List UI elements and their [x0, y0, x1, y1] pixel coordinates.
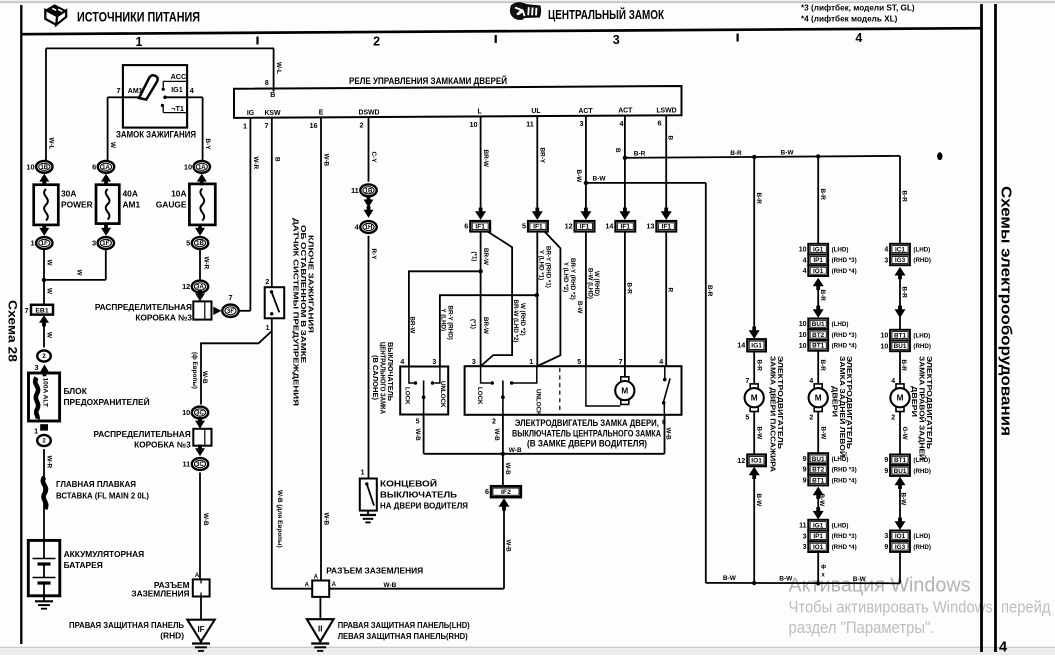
svg-text:1: 1 — [529, 359, 533, 366]
svg-text:10: 10 — [182, 408, 190, 417]
wire B-W branch horizontal — [576, 176, 706, 314]
svg-text:5: 5 — [577, 359, 581, 366]
svg-text:IC1: IC1 — [895, 246, 905, 253]
page bottom gray strip — [0, 647, 1055, 655]
svg-text:1: 1 — [136, 35, 143, 49]
svg-text:12: 12 — [737, 456, 745, 465]
svg-text:BR-W: BR-W — [482, 150, 489, 168]
svg-text:9: 9 — [803, 456, 807, 463]
wire W-B from relay E pin to ground — [321, 117, 329, 580]
svg-text:10: 10 — [881, 343, 889, 350]
svg-text:1A: 1A — [102, 165, 110, 171]
arrow into junction box — [195, 290, 205, 302]
svg-text:BT1: BT1 — [812, 343, 825, 350]
wire W from ignition pin7 — [108, 97, 123, 161]
svg-text:4: 4 — [999, 640, 1007, 656]
svg-text:W-L: W-L — [275, 62, 282, 74]
connector 10 3C — [182, 407, 208, 419]
svg-text:A: A — [332, 582, 337, 588]
fuse box arrow and pin 3 — [34, 363, 49, 376]
svg-text:IG1: IG1 — [171, 85, 183, 94]
svg-text:(RHD *4): (RHD *4) — [832, 343, 857, 350]
svg-text:B-W: B-W — [576, 301, 583, 314]
svg-text:14: 14 — [605, 222, 613, 231]
svg-text:11: 11 — [526, 120, 534, 129]
svg-text:1F: 1F — [102, 241, 109, 247]
svg-text:(RHD *4): (RHD *4) — [832, 477, 857, 484]
courtesy switch ground — [360, 511, 376, 523]
svg-text:POWER: POWER — [61, 200, 93, 210]
svg-text:РАЗЪЕМ ЗАЗЕМЛЕНИЯ: РАЗЪЕМ ЗАЗЕМЛЕНИЯ — [326, 565, 423, 575]
svg-text:РАСПРЕДЕЛИТЕЛЬНАЯ: РАСПРЕДЕЛИТЕЛЬНАЯ — [95, 302, 192, 312]
svg-text:EB1: EB1 — [35, 307, 48, 314]
svg-text:IF2: IF2 — [501, 489, 511, 496]
connector 2 oval upper — [37, 350, 51, 361]
svg-text:(LHD): (LHD) — [832, 246, 849, 253]
svg-text:(RHD *3): (RHD *3) — [832, 533, 857, 540]
svg-text:Y (LHD *2): Y (LHD *2) — [562, 262, 569, 292]
arrow and B-W link rear-left — [813, 487, 825, 520]
central lock switch box (В САЛОНЕ) — [400, 359, 448, 414]
wire BR-W from IF1 to driver box pin 3 — [470, 232, 490, 367]
svg-text:4: 4 — [659, 359, 663, 366]
svg-text:IF1: IF1 — [662, 224, 672, 231]
wire W-L drop to connector 1B — [46, 48, 54, 161]
wire W-B left branch into ground connector — [272, 588, 312, 590]
distribution box РАСПРЕДЕЛИТЕЛЬНАЯ КОРОБКА №3 (lower) — [94, 421, 212, 450]
svg-text:B-W: B-W — [779, 576, 793, 583]
arrow below stack and B-R link rear-right — [895, 267, 908, 330]
svg-text:LOCK: LOCK — [404, 387, 411, 405]
wire W-B from driver box pin 2 — [492, 415, 503, 454]
svg-text:5: 5 — [186, 239, 190, 248]
svg-text:W-B: W-B — [384, 582, 397, 589]
wire BR-W from relay L pin — [481, 116, 490, 210]
frame header rule with column ticks — [21, 28, 982, 44]
svg-text:W: W — [109, 142, 116, 149]
wire branch to salon switch pin 4 — [409, 271, 481, 366]
battery header icon — [45, 4, 66, 25]
svg-text:1: 1 — [34, 427, 38, 436]
driver door lock motor and switch box — [465, 359, 682, 416]
lock header icon — [510, 3, 540, 20]
svg-text:LSWD: LSWD — [656, 107, 676, 114]
bottom bus B-W — [706, 575, 900, 585]
svg-text:3: 3 — [92, 239, 96, 248]
wire R to driver box pin 4 — [666, 232, 673, 367]
arrow below IO1 — [749, 467, 760, 479]
svg-text:W-B: W-B — [201, 371, 208, 384]
svg-text:W-B: W-B — [504, 463, 511, 476]
svg-text:AM1: AM1 — [128, 88, 143, 95]
bus B-R horizontal to right section — [625, 149, 900, 159]
door lock control relay РЕЛЕ УПРАВЛЕНИЯ ЗАМКАМИ ДВЕРЕЙ — [234, 75, 682, 118]
svg-text:IO1: IO1 — [751, 458, 762, 465]
svg-text:IF1: IF1 — [580, 224, 590, 231]
svg-text:R-Y: R-Y — [370, 249, 377, 261]
svg-text:W-B: W-B — [493, 429, 500, 442]
svg-text:W-R: W-R — [45, 456, 52, 469]
wire to bottom bus rear-right — [899, 552, 901, 583]
svg-text:BT1: BT1 — [894, 457, 907, 464]
svg-text:КОРОБКА №3: КОРОБКА №3 — [134, 439, 191, 449]
svg-text:BR-W: BR-W — [482, 248, 489, 265]
svg-text:10A: 10A — [171, 189, 186, 199]
svg-text:Активация Windows: Активация Windows — [789, 575, 971, 597]
fuse 10A GAUGE — [156, 184, 216, 225]
wire B from relay LSWD pin — [666, 115, 673, 210]
svg-text:B-W: B-W — [853, 576, 867, 583]
svg-text:2: 2 — [265, 279, 269, 286]
relay pin labels — [247, 107, 677, 117]
svg-text:W-R: W-R — [203, 257, 210, 270]
svg-text:9: 9 — [884, 468, 888, 475]
connector 12 3A — [182, 281, 208, 293]
header title ИСТОЧНИКИ ПИТАНИЯ — [77, 10, 200, 25]
driver door courtesy switch КОНЦЕВОЙ ВЫКЛЮЧАТЕЛЬ — [360, 470, 468, 511]
passenger door motor — [745, 384, 764, 412]
wire B-W below rear left motor — [809, 411, 826, 453]
svg-text:10: 10 — [799, 332, 807, 339]
svg-text:ДВЕРИ: ДВЕРИ — [831, 386, 840, 417]
svg-text:(RHD): (RHD) — [913, 468, 931, 475]
svg-text:(RHD *3): (RHD *3) — [832, 467, 857, 474]
wire B-R to driver box pin 7 motor — [625, 232, 632, 379]
svg-text:(RHD): (RHD) — [913, 343, 931, 350]
wire C-Y from relay DSWD — [369, 117, 378, 182]
svg-text:B: B — [666, 136, 673, 141]
main fusible link ГЛАВНАЯ ПЛАВКАЯ ВСТАВКА — [43, 477, 149, 509]
svg-text:3: 3 — [884, 257, 888, 264]
wire B-W from relay ACT pin 3 — [575, 116, 588, 211]
wire W-B from salon pin 5 — [414, 415, 424, 454]
svg-text:9: 9 — [884, 544, 888, 551]
svg-text:¬T1: ¬T1 — [171, 104, 184, 113]
svg-text:(ф Европы): (ф Европы) — [191, 352, 198, 389]
svg-text:IG1: IG1 — [751, 343, 762, 350]
svg-text:UNLOCK: UNLOCK — [535, 389, 542, 416]
svg-text:1B: 1B — [40, 165, 48, 171]
svg-text:3: 3 — [34, 363, 38, 372]
svg-text:W-B (для Европы): W-B (для Европы) — [276, 490, 283, 548]
svg-text:3: 3 — [579, 119, 583, 128]
svg-text:10: 10 — [799, 247, 807, 254]
svg-text:(RHD *3): (RHD *3) — [832, 332, 857, 339]
svg-text:B-R: B-R — [901, 287, 908, 299]
wire B-R to rear right motor — [891, 351, 907, 385]
svg-text:ЗАМКА ДВЕРИ ПАССАЖИРА: ЗАМКА ДВЕРИ ПАССАЖИРА — [769, 356, 778, 473]
svg-text:12: 12 — [182, 282, 190, 291]
wire B-R from relay ACT pin 4 — [614, 116, 627, 211]
connector 10 1A — [184, 161, 210, 173]
svg-text:(RHD): (RHD) — [913, 257, 931, 264]
svg-text:BR-Y (RHD *2): BR-Y (RHD *2) — [569, 258, 576, 300]
svg-text:B-Y: B-Y — [204, 139, 211, 151]
frame right border double line — [982, 4, 996, 652]
relay pin numbers — [243, 119, 662, 131]
svg-text:IG: IG — [247, 110, 254, 117]
arrows into fuses — [39, 174, 207, 186]
svg-text:10: 10 — [469, 120, 477, 129]
svg-text:W-B: W-B — [414, 429, 421, 442]
svg-text:4: 4 — [884, 247, 888, 254]
svg-text:(LHD): (LHD) — [832, 321, 849, 328]
svg-text:ИСТОЧНИКИ ПИТАНИЯ: ИСТОЧНИКИ ПИТАНИЯ — [77, 10, 200, 25]
svg-text:B-W: B-W — [756, 427, 763, 441]
svg-text:BT1: BT1 — [812, 477, 825, 484]
wire W-B from IF2 to ground bus — [504, 507, 511, 589]
svg-text:8: 8 — [265, 80, 269, 87]
svg-text:(*1): (*1) — [470, 319, 477, 329]
arrow into 13 IF1 — [661, 208, 672, 220]
svg-text:IO1: IO1 — [813, 544, 824, 551]
svg-text:3C: 3C — [196, 411, 204, 417]
arrow into 5 IF1 — [532, 208, 543, 220]
svg-text:6: 6 — [464, 222, 468, 231]
svg-text:100A ALT: 100A ALT — [42, 378, 49, 407]
svg-text:16: 16 — [309, 121, 317, 130]
svg-text:B-R: B-R — [900, 360, 907, 372]
connector stack IC1 IG3 (upper rear-right) — [884, 244, 931, 265]
arrow into 14 IG1 — [749, 327, 760, 339]
connector 6 1A — [92, 161, 114, 173]
arrow into 14 IF1 — [619, 208, 630, 220]
windows activation watermark (behind diagram) — [789, 575, 1051, 637]
wire W-B down to ground connector — [195, 446, 209, 580]
connector 6 IF2 — [485, 486, 521, 497]
wire B-R drop to rear left door — [818, 157, 826, 244]
svg-text:3: 3 — [613, 33, 620, 47]
svg-text:30A: 30A — [61, 189, 76, 199]
svg-text:ВСТАВКА (FL MAIN 2 0L): ВСТАВКА (FL MAIN 2 0L) — [56, 490, 149, 500]
connector 11 1B oval — [351, 184, 377, 196]
arrow below EB1 and wire W — [39, 315, 53, 347]
arrow into 6 IF1 — [475, 208, 486, 220]
svg-text:4: 4 — [400, 359, 404, 366]
salon switch rotated label ВЫКЛЮЧАТЕЛЬ ЦЕНТРАЛЬНОГО ЗАМКА (В САЛОНЕ) — [371, 342, 395, 415]
svg-text:B: B — [274, 157, 281, 162]
svg-text:ДВЕРИ: ДВЕРИ — [910, 386, 919, 417]
wire to bottom bus with marks — [816, 552, 826, 586]
svg-text:АККУМУЛЯТОРНАЯ: АККУМУЛЯТОРНАЯ — [64, 549, 145, 559]
arrow below stack and B-R link — [813, 278, 826, 318]
svg-text:B-W: B-W — [593, 176, 607, 183]
svg-text:3: 3 — [803, 544, 807, 551]
svg-text:W-B: W-B — [509, 447, 522, 454]
wire from sensor to distribution box 2 — [191, 318, 283, 588]
svg-text:BR-Y (RHD *1): BR-Y (RHD *1) — [544, 246, 551, 288]
svg-text:DSWD: DSWD — [358, 109, 379, 116]
connector stack IO1 IG3 (lower rear-right) — [884, 531, 931, 552]
header note *3 *4 liftback models — [801, 3, 915, 24]
svg-text:7: 7 — [228, 293, 232, 302]
connector stack BU1 BT2 BT1 (lower rear-left) — [803, 453, 857, 485]
svg-text:7: 7 — [116, 86, 120, 95]
svg-text:BU1: BU1 — [894, 343, 907, 350]
svg-text:раздел "Параметры".: раздел "Параметры". — [789, 619, 935, 637]
svg-text:13: 13 — [646, 222, 654, 231]
rear right door motor — [890, 384, 909, 412]
svg-text:10: 10 — [26, 162, 34, 171]
svg-text:Схемы электрооборудования: Схемы электрооборудования — [998, 186, 1014, 436]
wire B-R drop to rear right door — [900, 156, 908, 244]
connector stack BT1 BU1 (upper rear-right) — [881, 330, 931, 351]
column number 1 — [136, 35, 143, 49]
svg-text:2: 2 — [359, 121, 363, 130]
svg-text:(RHD *3): (RHD *3) — [832, 257, 857, 264]
svg-text:1F: 1F — [41, 241, 48, 247]
svg-text:A: A — [195, 573, 200, 579]
svg-text:1B: 1B — [196, 241, 204, 247]
svg-text:10: 10 — [799, 321, 807, 328]
svg-text:C-Y: C-Y — [370, 152, 377, 164]
wire salon pin 3 to UL wire — [440, 295, 537, 366]
svg-text:B-R: B-R — [819, 360, 826, 372]
connector 12 IO1 — [737, 455, 766, 467]
svg-text:B-W: B-W — [818, 494, 825, 508]
wire B-Y from ignition pin4 — [187, 97, 211, 161]
wire B-R drop to passenger door motor — [754, 157, 762, 330]
column number 2 — [373, 34, 380, 48]
svg-text:W-R: W-R — [252, 157, 259, 170]
svg-text:II: II — [318, 625, 322, 634]
svg-text:AM1: AM1 — [123, 200, 141, 210]
svg-text:(RHD *4): (RHD *4) — [832, 268, 857, 275]
svg-text:M: M — [621, 387, 628, 396]
connector stack BU1 BT2 BT1 (upper rear-left) — [799, 319, 857, 351]
svg-text:5: 5 — [416, 418, 420, 425]
connector 2 oval lower — [37, 435, 51, 446]
svg-text:IG3: IG3 — [895, 257, 906, 264]
wire to IF2 — [503, 454, 511, 486]
svg-text:IP1: IP1 — [813, 533, 823, 540]
distribution box РАСПРЕДЕЛИТЕЛЬНАЯ КОРОБКА №3 (upper) — [95, 301, 212, 322]
svg-text:W-B: W-B — [322, 513, 329, 526]
wire W-R to main fuse — [44, 449, 52, 540]
wire B from relay KSW — [272, 118, 281, 288]
svg-text:B: B — [614, 148, 621, 153]
connector 13 IF1 — [646, 221, 676, 232]
svg-text:*4 (лифтбек модель XL): *4 (лифтбек модель XL) — [801, 14, 898, 24]
svg-text:W (RHD *2): W (RHD *2) — [519, 303, 526, 336]
svg-text:B-W: B-W — [819, 427, 826, 441]
svg-text:IO1: IO1 — [895, 533, 906, 540]
svg-text:2: 2 — [373, 34, 380, 48]
svg-text:ПРАВАЯ ЗАЩИТНАЯ ПАНЕЛЬ: ПРАВАЯ ЗАЩИТНАЯ ПАНЕЛЬ — [69, 620, 184, 630]
wire B-W below motor — [745, 411, 762, 454]
svg-text:ПРАВАЯ ЗАЩИТНАЯ ПАНЕЛЬ(LHD): ПРАВАЯ ЗАЩИТНАЯ ПАНЕЛЬ(LHD) — [338, 620, 470, 630]
svg-text:1B: 1B — [365, 189, 373, 195]
connector 3 1F — [92, 237, 114, 249]
page top gray strip — [0, 0, 1055, 3]
svg-text:2: 2 — [891, 414, 895, 421]
svg-text:W: W — [46, 288, 53, 295]
ground bus W-B under lock boxes — [424, 447, 665, 456]
svg-text:1H: 1H — [365, 225, 373, 231]
svg-text:E: E — [319, 110, 324, 117]
svg-text:A: A — [305, 583, 310, 589]
column number 3 — [613, 33, 620, 47]
svg-text:ACT: ACT — [618, 108, 633, 115]
wire B-W to bottom bus — [754, 475, 762, 583]
rear-left motor rotated label ЭЛЕКТРОДВИГАТЕЛЬ ЗАМКА ЗАДНЕЙ ЛЕВОЙ ДВЕРИ — [831, 356, 855, 457]
wire B-R to motor — [745, 351, 762, 385]
svg-text:(LHD): (LHD) — [913, 533, 930, 540]
svg-text:4: 4 — [803, 257, 807, 264]
svg-text:3: 3 — [432, 359, 436, 366]
svg-text:BU1: BU1 — [812, 321, 825, 328]
svg-text:6: 6 — [485, 487, 489, 496]
svg-text:6: 6 — [92, 162, 96, 171]
svg-text:ЭЛЕКТРОДВИГАТЕЛЬ ЗАМКА ДВЕРИ,: ЭЛЕКТРОДВИГАТЕЛЬ ЗАМКА ДВЕРИ, — [515, 418, 659, 428]
svg-text:4: 4 — [803, 268, 807, 275]
battery ground — [35, 596, 53, 609]
svg-text:5: 5 — [522, 222, 526, 231]
connector 5 IF1 — [522, 221, 548, 232]
svg-text:BR-W: BR-W — [482, 317, 489, 334]
ground connector РАЗЪЕМ ЗАЗЕМЛЕНИЯ (left) — [131, 579, 209, 598]
svg-text:11: 11 — [182, 460, 190, 469]
arrow into distribution box 2 — [195, 417, 205, 429]
svg-text:10: 10 — [184, 162, 192, 171]
wire variant elbow to pin 3 (LHD/RHD) — [481, 232, 526, 367]
svg-text:10: 10 — [799, 343, 807, 350]
svg-text:BT1: BT1 — [894, 332, 907, 339]
wire from 5 IF1 to driver box pin 1 — [535, 232, 552, 367]
svg-text:B-W: B-W — [723, 575, 737, 582]
svg-text:РЕЛЕ УПРАВЛЕНИЯ ЗАМКАМИ ДВЕРЕЙ: РЕЛЕ УПРАВЛЕНИЯ ЗАМКАМИ ДВЕРЕЙ — [349, 75, 507, 86]
svg-text:Y (LHD *1): Y (LHD *1) — [538, 250, 545, 280]
ground triangle IF right protective panel — [69, 597, 215, 651]
svg-text:A: A — [314, 574, 319, 580]
svg-text:W-B: W-B — [322, 154, 329, 167]
rear-right motor rotated label ЭЛЕКТРОДВИГАТЕЛЬ ЗАМКА ПРАВОЙ ЗАДНЕЙ ДВЕРИ — [910, 356, 934, 460]
svg-text:GAUGE: GAUGE — [156, 200, 187, 210]
svg-text:IG1: IG1 — [813, 522, 824, 529]
svg-text:10: 10 — [881, 333, 889, 340]
fuse 30A POWER — [34, 185, 93, 225]
svg-text:4: 4 — [855, 31, 862, 45]
connector 10 1B — [26, 161, 52, 173]
svg-text:B-W: B-W — [781, 149, 795, 156]
arrow below box 2 and connector 11 3C — [182, 445, 208, 470]
svg-text:КОРОБКА №3: КОРОБКА №3 — [135, 312, 192, 322]
svg-text:БАТАРЕЯ: БАТАРЕЯ — [64, 560, 103, 570]
arrow and B-W link rear-right — [895, 477, 907, 530]
connector 14 IF1 — [605, 221, 635, 232]
svg-text:LOCK: LOCK — [476, 387, 483, 405]
svg-text:(*1): (*1) — [470, 252, 477, 262]
wire W-R from 1B to 3A — [200, 249, 210, 281]
svg-text:BR-Y: BR-Y — [539, 148, 546, 164]
fuse 40A AM1 — [96, 185, 141, 224]
svg-text:Схема 28: Схема 28 — [6, 300, 18, 363]
arrow right to 3F — [213, 307, 221, 315]
column number 4 — [855, 31, 862, 45]
connector 5 1B — [186, 237, 208, 249]
svg-text:6: 6 — [657, 119, 661, 128]
driver door motor M — [615, 377, 634, 405]
svg-text:BT2: BT2 — [812, 332, 825, 339]
svg-text:B-W: B-W — [575, 170, 582, 184]
svg-text:Y (LHD): Y (LHD) — [440, 309, 447, 332]
driver box label ЭЛЕКТРОДВИГАТЕЛЬ ЗАМКА ДВЕРИ ВЫКЛЮЧАТЕЛЬ ЦЕНТРАЛЬНОГО ЗАМКА — [512, 418, 666, 449]
svg-text:12: 12 — [565, 222, 573, 231]
battery АККУМУЛЯТОРНАЯ БАТАРЕЯ — [28, 540, 144, 595]
svg-text:9: 9 — [803, 478, 807, 485]
svg-text:14: 14 — [737, 341, 745, 350]
wire W-B right branch into ground connector — [329, 582, 504, 589]
